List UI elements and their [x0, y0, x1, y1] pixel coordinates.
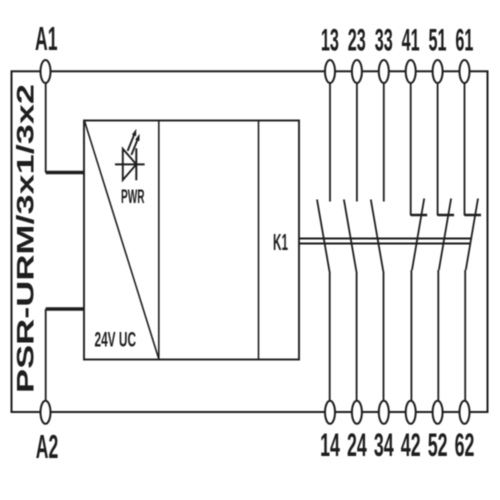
wire A1 to coil (thick)	[46, 171, 84, 175]
wire 42	[410, 270, 412, 401]
NC contact 61-62 : seat bar	[465, 214, 482, 216]
terminal 34	[379, 401, 389, 424]
svg-text:24V UC: 24V UC	[95, 329, 137, 352]
NC contact 41-42 : seat bar	[411, 214, 428, 216]
terminal 33	[379, 60, 389, 83]
wire A2 to coil (thick)	[46, 307, 84, 311]
svg-text:24: 24	[347, 427, 367, 463]
outer module border	[12, 71, 488, 412]
NC contact 41-42 : blade	[412, 199, 424, 271]
terminal 13	[325, 60, 335, 83]
terminal 62	[460, 401, 470, 424]
terminal 61	[460, 60, 470, 83]
coil box divider 2	[258, 121, 260, 360]
coil polarity diagonal	[85, 121, 159, 359]
svg-text:52: 52	[428, 427, 448, 463]
svg-text:A1: A1	[35, 21, 58, 58]
wire 14	[329, 272, 331, 402]
wire 62	[464, 270, 466, 401]
LED D1 cathode bar	[135, 148, 137, 180]
LED D1 arrow 1	[128, 135, 135, 151]
NC contact 61-62 : stub	[464, 83, 466, 216]
coil box divider 1	[158, 121, 160, 360]
NO contact 33-34 : stub	[383, 83, 385, 202]
terminal 51	[433, 60, 443, 83]
svg-text:62: 62	[455, 427, 475, 463]
wire A2 vertical	[45, 309, 47, 401]
NO contact 23-24 : blade	[344, 200, 357, 272]
LED D1 anode line	[115, 163, 145, 165]
svg-text:23: 23	[348, 22, 366, 58]
terminal 14	[325, 401, 335, 424]
terminal 52	[433, 401, 443, 424]
svg-text:41: 41	[402, 22, 420, 58]
NC contact 51-52 : stub	[437, 83, 439, 216]
svg-text:PWR: PWR	[121, 186, 145, 208]
NC contact 51-52 : seat bar	[438, 214, 455, 216]
NO contact 23-24 : stub	[356, 83, 358, 202]
terminal 41	[406, 60, 416, 83]
svg-text:13: 13	[321, 22, 339, 58]
terminal A1	[41, 60, 51, 83]
NC contact 41-42 : stub	[410, 83, 412, 216]
svg-text:PSR-URM/3x1/3x2: PSR-URM/3x1/3x2	[13, 84, 40, 393]
terminal 24	[352, 401, 362, 424]
NO contact 33-34 : blade	[371, 200, 384, 272]
wire 34	[383, 272, 385, 402]
svg-text:K1: K1	[273, 229, 288, 255]
terminal 42	[406, 401, 416, 424]
svg-text:A2: A2	[36, 429, 59, 466]
svg-text:61: 61	[455, 22, 473, 58]
LED D1 triangle	[123, 149, 137, 180]
LED D1 arrow 2	[131, 140, 137, 155]
mechanical linkage double line	[299, 238, 471, 240]
relay K1 coil box	[84, 121, 299, 360]
wire 24	[356, 272, 358, 402]
svg-text:42: 42	[401, 427, 421, 463]
wire 52	[437, 270, 439, 401]
NC contact 61-62 : blade	[466, 199, 478, 271]
svg-text:51: 51	[429, 22, 447, 58]
NC contact 51-52 : blade	[439, 199, 451, 271]
svg-text:33: 33	[375, 22, 393, 58]
wire A1 vertical	[45, 83, 47, 173]
terminal A2	[41, 401, 51, 424]
terminal 23	[352, 60, 362, 83]
svg-text:14: 14	[320, 427, 340, 463]
svg-text:34: 34	[374, 427, 394, 463]
NO contact 13-14 : stub	[329, 83, 331, 202]
NO contact 13-14 : blade	[317, 200, 330, 272]
